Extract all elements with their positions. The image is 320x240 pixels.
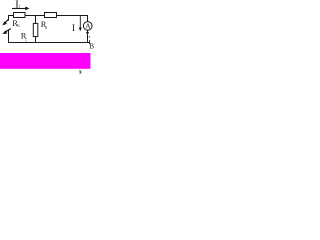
wire: Ri bottom lead	[35, 37, 37, 43]
svg-text:A: A	[85, 22, 91, 30]
bottom wire	[8, 42, 90, 44]
svg-text:x: x	[79, 70, 82, 75]
terminal tick B (right end of bottom wire)	[89, 40, 91, 44]
terminal arrow (lower left port terminal)	[3, 29, 11, 34]
label Ri	[21, 31, 28, 43]
svg-text:1: 1	[18, 3, 20, 8]
svg-text:a: a	[45, 25, 47, 30]
resistor RL (horizontal, top-middle)	[45, 13, 57, 18]
current arrow I1	[12, 7, 30, 11]
terminal arrow (upper left port terminal)	[2, 19, 8, 25]
label RL	[41, 19, 47, 30]
wire: top right segment and turn down to ammeter	[57, 16, 88, 22]
resistor RG (horizontal, top-left)	[14, 13, 26, 18]
wire: top-left lead + left branch upper segment	[9, 16, 14, 21]
svg-text:B: B	[89, 42, 94, 50]
arrowhead on ammeter bottom lead	[86, 32, 89, 35]
svg-text:I: I	[72, 24, 75, 34]
wire: left branch lower segment + bottom-left corner	[8, 29, 10, 42]
svg-text:G: G	[17, 23, 20, 28]
svg-text:i: i	[25, 37, 27, 42]
wire: middle top segment with T junction	[25, 15, 44, 17]
wire: ammeter bottom lead	[87, 30, 89, 42]
wire: stub down to Ri	[35, 16, 37, 24]
label I1 (current over RG)	[15, 0, 20, 10]
ammeter A	[83, 22, 92, 31]
label RG	[12, 18, 20, 28]
resistor Ri (vertical, middle)	[33, 23, 38, 36]
current arrow I (down, left of ammeter)	[79, 16, 82, 32]
magenta highlight bar	[0, 53, 91, 69]
svg-text:s: s	[89, 34, 91, 39]
